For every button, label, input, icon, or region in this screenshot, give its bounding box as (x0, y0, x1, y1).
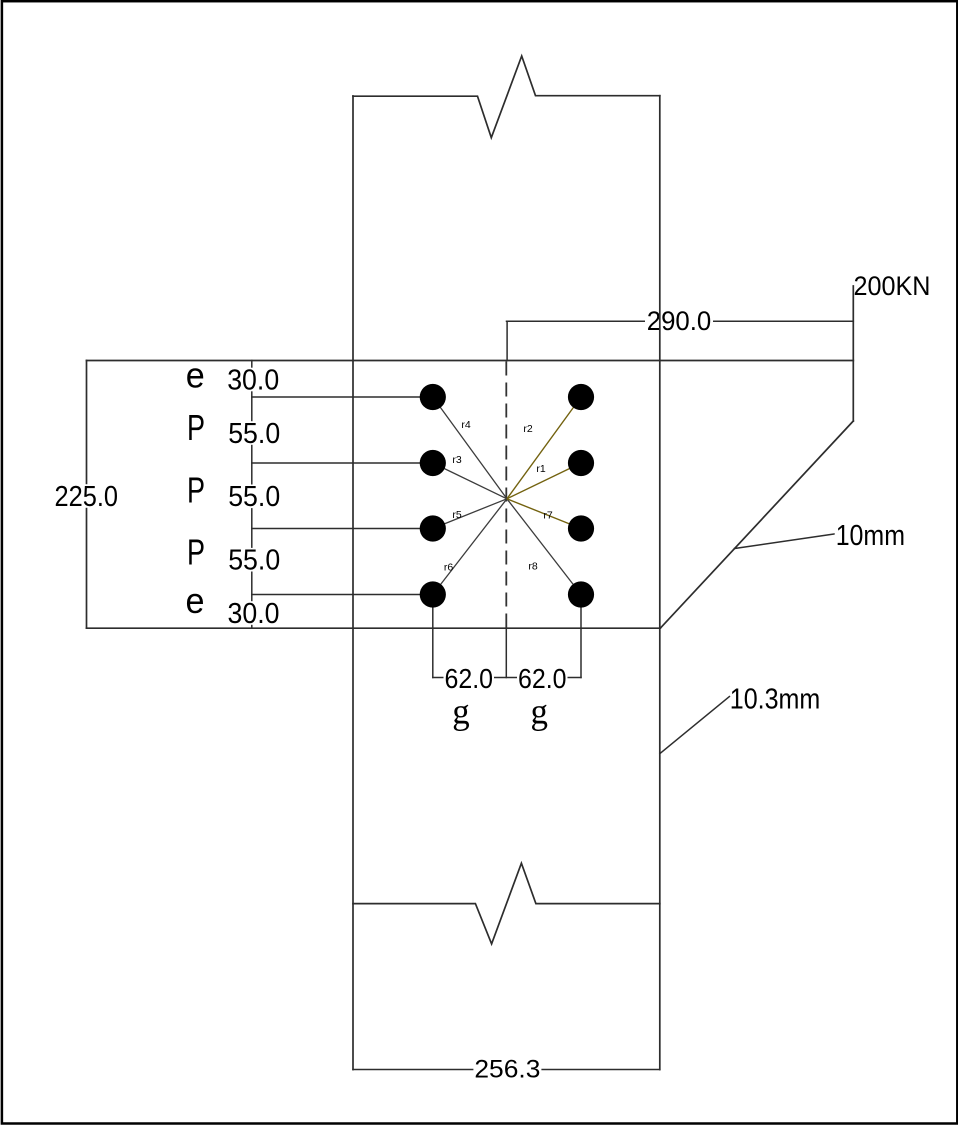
svg-text:e: e (186, 580, 205, 621)
svg-text:g: g (531, 692, 549, 732)
svg-text:g: g (452, 692, 470, 732)
svg-text:225.0: 225.0 (55, 481, 119, 513)
svg-text:55.0: 55.0 (228, 481, 280, 513)
svg-text:r1: r1 (536, 463, 545, 475)
svg-text:r2: r2 (523, 423, 532, 435)
svg-text:r3: r3 (452, 454, 461, 466)
svg-text:290.0: 290.0 (647, 306, 712, 336)
svg-text:200KN: 200KN (854, 271, 931, 301)
svg-text:P: P (187, 532, 205, 573)
svg-text:30.0: 30.0 (228, 598, 280, 630)
svg-text:e: e (186, 354, 205, 395)
svg-text:P: P (187, 407, 205, 448)
svg-text:r5: r5 (452, 509, 461, 521)
svg-text:P: P (187, 470, 205, 511)
svg-text:10mm: 10mm (836, 520, 905, 552)
svg-text:r7: r7 (543, 510, 552, 522)
svg-text:r8: r8 (528, 561, 537, 573)
svg-text:256.3: 256.3 (474, 1056, 540, 1084)
svg-text:r6: r6 (444, 562, 453, 574)
svg-text:55.0: 55.0 (228, 418, 280, 450)
svg-text:62.0: 62.0 (445, 663, 494, 694)
svg-text:r4: r4 (461, 419, 470, 431)
svg-text:30.0: 30.0 (227, 364, 279, 396)
svg-text:55.0: 55.0 (228, 545, 280, 577)
svg-text:10.3mm: 10.3mm (730, 683, 821, 715)
svg-text:62.0: 62.0 (518, 663, 567, 694)
